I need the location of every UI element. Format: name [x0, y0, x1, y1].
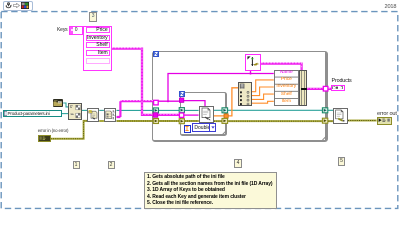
- error out label: [377, 111, 397, 117]
- wire: orange index array out 2 to Inventory: [252, 87, 274, 96]
- comment box: [144, 172, 277, 209]
- error out indicator: [377, 117, 392, 124]
- open config VI: [87, 108, 99, 122]
- bundle by name element boxes: [274, 70, 300, 106]
- wire: teal build node to open VI: [82, 109, 88, 111]
- tunnel: error inner left: [179, 119, 184, 124]
- Keys array element Inventory: [86, 35, 110, 41]
- wire: section name inside loop: [156, 100, 184, 102]
- wire: teal refnum section VI to read key VI: [117, 109, 199, 111]
- toolbar icon colored grid: [21, 2, 29, 9]
- year label 2018: [385, 4, 397, 10]
- bundle element label Item: [275, 100, 298, 105]
- wire: key names VI output to array-to-cluster: [261, 63, 302, 70]
- N count terminal outer loop: [153, 51, 159, 57]
- tunnel: sections auto-index on outer loop: [154, 100, 159, 105]
- toolbar icon arrow: [13, 3, 20, 8]
- tunnel: orange auto-index inner right: [224, 114, 228, 118]
- inner for loop: [180, 92, 227, 136]
- bundle output junction: [301, 88, 307, 91]
- tunnel: section solid on inner loop: [179, 98, 183, 102]
- Products label: [332, 78, 352, 84]
- bundle element label Price: [275, 78, 298, 83]
- error in control: [38, 135, 51, 142]
- tunnel: cluster array out on outer loop: [323, 86, 328, 91]
- wire: teal path control to build node: [62, 113, 69, 115]
- path constant Product-parameters.ini: [3, 110, 62, 118]
- step label 5: [338, 157, 345, 166]
- step label 1: [73, 161, 80, 169]
- error in label: [38, 128, 69, 133]
- wire: orange index array out 1 to Price: [252, 80, 274, 92]
- wire: key scalar to read key VI: [184, 114, 199, 116]
- tunnel: error outer right: [322, 118, 327, 123]
- array to cluster bar: [299, 70, 307, 106]
- wire: section into read key VI: [184, 101, 205, 107]
- tunnel: keys auto-index on inner loop: [179, 113, 183, 117]
- Keys label: [57, 27, 68, 33]
- get key names VI: [245, 54, 261, 71]
- Keys array index box: [69, 26, 83, 35]
- toolbar box top-left: [3, 1, 33, 12]
- wire: error section VI through loops: [117, 120, 199, 122]
- outer for loop: [152, 51, 328, 142]
- wire: error open VI to section VI: [99, 120, 104, 122]
- bundle element label Name: [275, 71, 298, 76]
- wire: error in to open VI: [51, 121, 88, 139]
- toolbar icon anchor: [5, 2, 12, 9]
- wire: orange read key output: [214, 88, 238, 116]
- read key VI: [199, 106, 214, 123]
- wire: teal folder to build node: [63, 103, 68, 107]
- close config VI: [333, 108, 348, 124]
- corner resize glyph inner loop: [223, 131, 227, 135]
- step label 4: [234, 159, 242, 168]
- wire: section name branch to name box: [167, 71, 274, 103]
- Keys array frame: [83, 26, 112, 71]
- Products indicator: [331, 85, 345, 91]
- folder constant icon: [53, 99, 64, 107]
- Keys array element Item: [86, 50, 110, 56]
- Double type dropdown: [192, 123, 217, 132]
- wire: error read key to close VI: [214, 120, 334, 122]
- wire: sections array VI to outer loop tunnel: [117, 101, 157, 118]
- wire: teal refnum open VI to section VI: [99, 109, 104, 111]
- step label 3: [89, 12, 97, 21]
- tunnel: teal outer left: [153, 108, 158, 113]
- Keys array element Price: [86, 27, 110, 33]
- wire: keys array control to loops: [112, 48, 182, 115]
- N count terminal inner loop: [179, 91, 185, 97]
- build path node: [68, 103, 82, 119]
- wire: teal refnum read key to close VI: [214, 109, 334, 111]
- wire: orange index array out 3 to Shelf: [252, 94, 274, 99]
- index array node: [238, 82, 252, 106]
- tunnel: teal outer right: [322, 108, 327, 113]
- wire: orange index array out 4 to Item: [252, 101, 274, 103]
- corner resize glyph outer loop: [323, 136, 327, 140]
- wire: error close VI to error out: [348, 120, 377, 122]
- tunnel: keys solid on outer loop: [153, 113, 158, 118]
- bundle element label Shelf: [275, 93, 298, 98]
- bundle element label Inventory: [275, 85, 298, 90]
- tunnel: error inner right: [222, 118, 228, 123]
- tunnel: teal inner left: [179, 108, 184, 113]
- step label 2: [108, 161, 115, 169]
- wire: cluster array to products: [307, 87, 331, 90]
- get section names VI: [104, 108, 117, 122]
- Keys array element Shelf: [86, 42, 110, 48]
- tunnel: error outer left: [153, 119, 158, 124]
- tunnel: teal inner right: [222, 108, 228, 113]
- Keys array element empty: [86, 58, 110, 64]
- type selector I box: [184, 125, 191, 133]
